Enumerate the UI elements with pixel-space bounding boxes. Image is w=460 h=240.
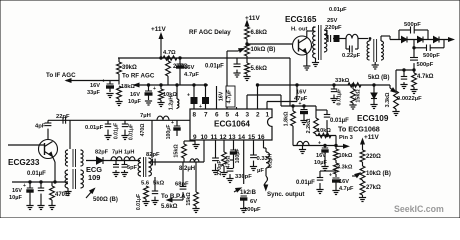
svg-text:0.01µF: 0.01µF [136, 194, 142, 210]
svg-text:To RF AGC: To RF AGC [122, 73, 155, 80]
svg-text:5pF: 5pF [127, 165, 138, 171]
svg-text:15kΩ: 15kΩ [186, 192, 192, 206]
junction dots top bus [160, 57, 162, 59]
svg-text:µF: µF [257, 168, 264, 174]
svg-text:+: + [299, 101, 302, 107]
svg-text:2: 2 [256, 112, 260, 119]
svg-text:5.6: 5.6 [141, 181, 150, 187]
pot wiper right [352, 175, 358, 177]
resistor 4.7ohm [163, 56, 177, 60]
ground below 4.7k [413, 87, 415, 89]
svg-text:11: 11 [211, 134, 218, 141]
ground below 0.01uF lower [316, 190, 323, 194]
ground below 470 left [48, 206, 55, 210]
wire emitter to ground [306, 53, 308, 66]
svg-text:16V: 16V [12, 188, 22, 194]
svg-text:4pF: 4pF [35, 124, 46, 130]
capacitor 4.7uF 16V rotated labels box [226, 86, 235, 107]
svg-text:109: 109 [88, 173, 100, 182]
inductor 00 [297, 141, 309, 145]
svg-text:To IF AGC: To IF AGC [46, 72, 76, 79]
capacitor 330pF [233, 160, 235, 168]
diode above pin 8 [193, 85, 195, 97]
svg-text:0.01µF: 0.01µF [296, 180, 315, 186]
wire pin9 ground [194, 140, 196, 144]
wire main top bus [118, 57, 290, 59]
svg-text:470Ω: 470Ω [226, 156, 232, 169]
svg-text:10µF: 10µF [9, 195, 22, 201]
diode above pin 7 [205, 85, 207, 97]
ground below 100uF 6V [240, 209, 247, 213]
svg-text:9: 9 [193, 134, 197, 141]
svg-text:5kΩ (B): 5kΩ (B) [368, 75, 389, 81]
svg-text:10kΩ: 10kΩ [339, 153, 353, 159]
svg-text:13: 13 [229, 134, 237, 141]
wire base ECG233 [8, 144, 45, 146]
wire 10k line [316, 135, 336, 137]
resistor 39k [118, 58, 120, 62]
svg-text:16V: 16V [219, 91, 225, 101]
svg-text:10kΩ (B): 10kΩ (B) [251, 47, 276, 53]
wire pin6 up [216, 86, 218, 109]
svg-text:4.7µF: 4.7µF [339, 186, 354, 192]
svg-text:10kΩ (B): 10kΩ (B) [366, 171, 391, 177]
svg-text:10: 10 [201, 134, 209, 141]
ground below 0.01uF left [37, 206, 44, 210]
svg-text:+11V: +11V [364, 134, 379, 141]
svg-text:5.6kΩ: 5.6kΩ [251, 66, 268, 72]
ground pin9 [192, 145, 199, 149]
ground below 4.7uF [332, 191, 339, 195]
transformer T1 driver [313, 27, 316, 58]
resistor 22k [167, 58, 169, 61]
ground below 0.33uF [250, 167, 257, 171]
resistor 1.8k [292, 106, 294, 111]
svg-text:68pF: 68pF [175, 182, 189, 188]
resistor 10k horizontal [318, 133, 331, 137]
svg-text:1k2∶B: 1k2∶B [240, 190, 257, 196]
wire emitter bus [12, 181, 68, 183]
ground below 27k [362, 195, 364, 197]
svg-text:5: 5 [226, 112, 230, 119]
svg-text:8.2µH: 8.2µH [268, 154, 274, 169]
svg-text:H. out: H. out [291, 27, 307, 33]
svg-text:100µF: 100µF [166, 125, 172, 140]
svg-text:7µH: 7µH [112, 150, 122, 156]
svg-text:82pF: 82pF [146, 152, 160, 158]
svg-text:33µF: 33µF [87, 90, 100, 96]
svg-text:18kΩ: 18kΩ [121, 84, 135, 90]
wire line y145.5 [293, 145, 336, 147]
IC U1 ECG1064 body [190, 109, 272, 140]
svg-text:+: + [171, 120, 174, 126]
svg-text:15kΩ: 15kΩ [356, 89, 362, 103]
svg-text:To ECG1068: To ECG1068 [338, 125, 380, 134]
svg-text:12: 12 [220, 134, 228, 141]
capacitor 0.01uF lower right [320, 170, 336, 172]
resistor 220 [360, 150, 365, 162]
node Sync output [265, 176, 268, 188]
diode vertical on bus [373, 85, 375, 93]
svg-text:0.22µF: 0.22µF [342, 53, 361, 59]
pot 500ohm B [86, 190, 93, 198]
capacitor 100uF 6V [241, 196, 247, 200]
svg-text:ECG1064: ECG1064 [214, 120, 250, 129]
svg-text:1µH: 1µH [124, 150, 134, 156]
ground below 5.6k [243, 77, 250, 81]
wire long line y120 [48, 119, 190, 121]
ground below T1 [312, 63, 319, 67]
svg-text:16V: 16V [339, 179, 349, 185]
resistor 470 below pin12 [223, 140, 225, 152]
svg-text:4.7µF: 4.7µF [184, 72, 199, 78]
wire collector to transformer [306, 31, 308, 38]
transformer T3 upper [69, 120, 71, 149]
svg-text:+: + [318, 141, 321, 147]
wire node to pot and caps [396, 69, 414, 71]
diode D1 [402, 37, 408, 43]
resistor 6.8k [245, 27, 250, 39]
wire 47uF node line [281, 105, 316, 107]
svg-text:7: 7 [204, 112, 208, 119]
capacitor 10uF 16V [148, 85, 150, 91]
svg-text:470Ω: 470Ω [140, 124, 146, 137]
pot 10k B right [362, 162, 364, 166]
svg-text:3.3kΩ: 3.3kΩ [385, 92, 391, 107]
svg-text:15: 15 [248, 134, 256, 141]
wire pin4 up [236, 107, 238, 109]
ground below 470 [220, 173, 227, 177]
resistor 3.3k vertical right [335, 160, 337, 163]
resistor 2.2k [315, 106, 317, 118]
svg-text:+: + [23, 183, 26, 189]
capacitor 500pF vertical [413, 48, 415, 58]
capacitor 0.33uF [253, 140, 255, 155]
capacitor 4.7uF 16V [179, 58, 181, 64]
svg-text:RF AGC Delay: RF AGC Delay [189, 29, 231, 36]
ground below 00 [302, 146, 304, 150]
ground below emitter [303, 66, 310, 70]
svg-text:82pF: 82pF [95, 150, 109, 156]
capacitor 0.0022uF [403, 70, 405, 77]
ground below 10uF left [26, 206, 33, 210]
capacitor 10uF 16V left [29, 182, 31, 188]
wire To RF AGC line with arrow [134, 84, 208, 86]
capacitor 0.01uF delay [236, 58, 238, 64]
wire pin1 staircase [266, 102, 268, 110]
svg-text:1: 1 [266, 112, 270, 119]
wire To IF AGC with left arrow [66, 80, 119, 82]
capacitor 68pF [182, 162, 184, 186]
wire to ECG1068 arrow [335, 136, 337, 147]
potentiometer 10k B [245, 44, 250, 56]
svg-text:+: + [187, 93, 190, 99]
inductor peaking coil [346, 34, 358, 38]
svg-text:3.3kΩ: 3.3kΩ [337, 165, 353, 171]
wire emitter ECG233 down [53, 157, 56, 163]
svg-text:7µH: 7µH [140, 113, 151, 119]
wire line y162 [150, 161, 204, 163]
ground below 10uF [145, 101, 152, 105]
resistor 4.7k [413, 70, 415, 73]
svg-text:4.7µF: 4.7µF [227, 89, 233, 104]
svg-text:500Ω (B): 500Ω (B) [93, 197, 118, 203]
svg-text:16V: 16V [130, 92, 140, 98]
junction dot emitter bus [54, 181, 56, 183]
svg-text:10kΩ: 10kΩ [317, 128, 331, 134]
capacitor 0.01uF left [40, 182, 42, 188]
svg-text:27kΩ: 27kΩ [366, 185, 381, 191]
svg-text:1.2µH: 1.2µH [169, 96, 175, 111]
wire pin2 up [257, 85, 259, 109]
svg-text:Sync. output: Sync. output [267, 191, 304, 198]
svg-text:16V: 16V [90, 83, 100, 89]
inductor 8.2uH vertical [263, 140, 265, 148]
svg-text:0.01µF: 0.01µF [129, 124, 135, 140]
ground below 18k [118, 99, 120, 101]
pot wiper arrow [227, 50, 238, 52]
ground below pot [395, 109, 397, 111]
resistor 10k vertical [160, 85, 162, 89]
svg-text:0.01µF: 0.01µF [205, 64, 224, 70]
svg-text:0.01µF: 0.01µF [114, 123, 120, 139]
ground below 33uF [106, 94, 113, 98]
transformer T4 lower [65, 170, 68, 188]
svg-text:16V: 16V [316, 153, 326, 159]
wire bus from pin2 [258, 84, 391, 86]
svg-text:5.6kΩ: 5.6kΩ [161, 204, 178, 210]
wire pin10 down [203, 140, 205, 162]
resistor 470 left [51, 182, 53, 186]
capacitor 0.01uF on bus [333, 85, 335, 89]
wire base feed to ECG165 [247, 43, 292, 45]
inductor 1.2uH [176, 85, 178, 99]
wire diode chain [390, 39, 452, 41]
svg-text:0.01µF: 0.01µF [330, 118, 349, 124]
capacitor 270pF [215, 140, 217, 158]
resistor 5.6k delay [246, 62, 248, 63]
ground below T4 [64, 192, 71, 196]
svg-text:4.7Ω: 4.7Ω [163, 50, 176, 56]
svg-text:SeekIC.com: SeekIC.com [394, 204, 444, 214]
ground below 0.01uF delay [233, 73, 240, 77]
svg-text:0.01µF: 0.01µF [337, 88, 343, 106]
capacitor 10uF small [115, 161, 117, 165]
svg-text:+: + [153, 86, 156, 92]
ground below 10uF mid [321, 167, 328, 171]
transformer T2 output [369, 39, 371, 42]
capacitor 0.22uF [345, 39, 347, 50]
ground below 47uF [300, 121, 307, 125]
svg-text:500pF: 500pF [404, 22, 421, 28]
svg-text:8.2µH: 8.2µH [179, 166, 195, 172]
svg-text:220µF: 220µF [325, 25, 342, 31]
diode D2 [418, 37, 424, 43]
svg-text:2.2kΩ: 2.2kΩ [306, 118, 312, 133]
capacitor 0.01uF right of IC [316, 109, 327, 111]
capacitor 500pF top bridge [398, 30, 400, 40]
svg-text:6.8kΩ: 6.8kΩ [251, 30, 268, 36]
resistor 15k on bus [352, 85, 354, 89]
svg-text:+: + [102, 79, 105, 85]
resistor 18k [117, 86, 122, 99]
svg-text:10µF: 10µF [128, 99, 141, 105]
svg-text:6: 6 [215, 112, 219, 119]
svg-text:ECG109: ECG109 [357, 114, 389, 123]
capacitor 100uF below pin13 [233, 140, 235, 150]
svg-text:39kΩ: 39kΩ [122, 65, 137, 71]
ground below 270pF [212, 171, 219, 175]
wire pin3 staircase [246, 95, 248, 109]
svg-text:+: + [329, 173, 332, 179]
svg-text:ECG233: ECG233 [8, 158, 40, 167]
ground below 5.6k bottom [195, 206, 197, 208]
ground below 10k [160, 100, 162, 102]
capacitor 500pF lower bridge [413, 40, 415, 48]
svg-text:270pF: 270pF [217, 161, 223, 176]
svg-text:0.01µF: 0.01µF [85, 125, 104, 131]
wire drop x152 [151, 120, 153, 158]
wire bus corner down x290 [289, 58, 291, 106]
svg-text:100µF: 100µF [235, 149, 241, 164]
ground below 330pF [226, 179, 233, 183]
svg-text:33kΩ: 33kΩ [335, 78, 350, 84]
pot 5k wiper arrow [389, 85, 391, 88]
svg-text:25V: 25V [327, 18, 337, 24]
transformer T5 [138, 158, 141, 176]
svg-text:0.0022µF: 0.0022µF [397, 96, 422, 102]
diode D3 [434, 37, 440, 43]
svg-text:1.8kΩ: 1.8kΩ [284, 111, 290, 126]
pot 1k2 B [243, 140, 245, 184]
resistor 15k mid [183, 141, 185, 144]
resistor 27k [362, 180, 364, 181]
svg-text:0.01µF: 0.01µF [329, 7, 347, 13]
svg-text:500pF: 500pF [423, 53, 440, 59]
pot 1k2 wiper [234, 189, 239, 192]
node To B.P.A [168, 199, 183, 201]
fuse black element [334, 36, 339, 42]
svg-text:14: 14 [238, 134, 246, 141]
ground below T2 [374, 62, 376, 65]
resistor 10k vertical right [334, 149, 339, 160]
pot 3.3k vertical [394, 91, 399, 109]
capacitor c1 mid [107, 120, 109, 124]
svg-text:500pF: 500pF [417, 62, 434, 68]
ground below 15k [352, 103, 354, 105]
resistor 33k horizontal [348, 83, 361, 87]
svg-text:4: 4 [235, 112, 239, 119]
svg-text:15kΩ: 15kΩ [174, 144, 180, 158]
ground below 5.6 [145, 199, 147, 201]
svg-text:16: 16 [258, 134, 266, 141]
svg-text:+11V: +11V [151, 26, 166, 33]
svg-text:4.7kΩ: 4.7kΩ [417, 74, 434, 80]
svg-text:16V: 16V [184, 65, 194, 71]
inductor 8.2uH horizontal [190, 159, 199, 162]
svg-text:3: 3 [246, 112, 250, 119]
svg-text:To B.P.A: To B.P.A [161, 193, 186, 200]
wire pin5 up [226, 107, 228, 109]
svg-text:0.01µF: 0.01µF [27, 171, 46, 177]
svg-text:10µF: 10µF [314, 160, 327, 166]
capacitor 33uF [109, 81, 111, 85]
junction dots agc line [147, 84, 149, 86]
svg-text:ECG165: ECG165 [285, 15, 317, 24]
svg-text:6V: 6V [250, 199, 257, 205]
capacitor 4.7uF 16V right [333, 178, 340, 182]
svg-text:8: 8 [193, 112, 197, 119]
svg-text:220Ω: 220Ω [366, 154, 381, 160]
svg-text:Pin 3: Pin 3 [339, 135, 354, 141]
capacitor 10uF 16V mid [324, 146, 326, 149]
